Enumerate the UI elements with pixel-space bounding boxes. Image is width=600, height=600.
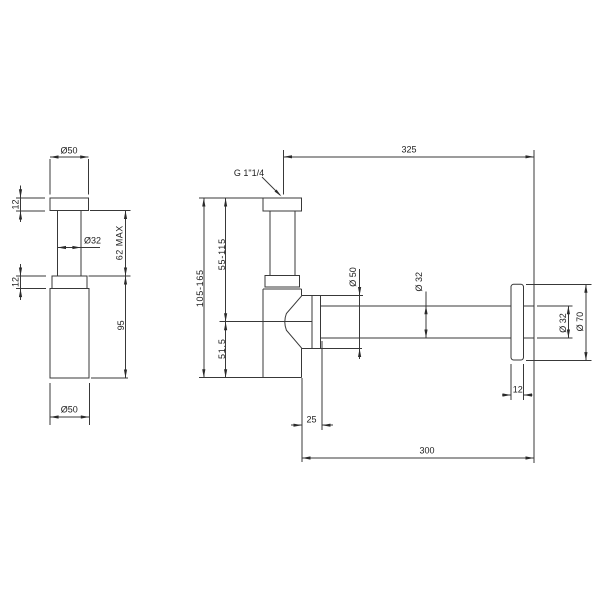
- svg-text:Ø32: Ø32: [84, 236, 101, 246]
- svg-text:105-165: 105-165: [195, 269, 205, 307]
- svg-text:51.5: 51.5: [217, 338, 227, 359]
- svg-text:300: 300: [419, 446, 434, 456]
- svg-text:12: 12: [11, 199, 21, 209]
- svg-text:Ø50: Ø50: [61, 405, 78, 415]
- svg-text:95: 95: [116, 320, 126, 330]
- svg-text:Ø 32: Ø 32: [558, 313, 568, 333]
- svg-text:325: 325: [401, 145, 416, 155]
- svg-text:Ø 70: Ø 70: [575, 312, 585, 332]
- svg-text:Ø 32: Ø 32: [414, 272, 424, 292]
- svg-text:25: 25: [306, 415, 316, 425]
- svg-text:Ø 50: Ø 50: [348, 267, 358, 287]
- svg-text:62 MAX: 62 MAX: [115, 225, 125, 260]
- svg-text:55-115: 55-115: [217, 238, 227, 270]
- svg-text:Ø50: Ø50: [60, 146, 77, 156]
- svg-text:12: 12: [513, 385, 523, 395]
- svg-text:12: 12: [11, 277, 21, 287]
- svg-text:G 1"1/4: G 1"1/4: [234, 168, 264, 178]
